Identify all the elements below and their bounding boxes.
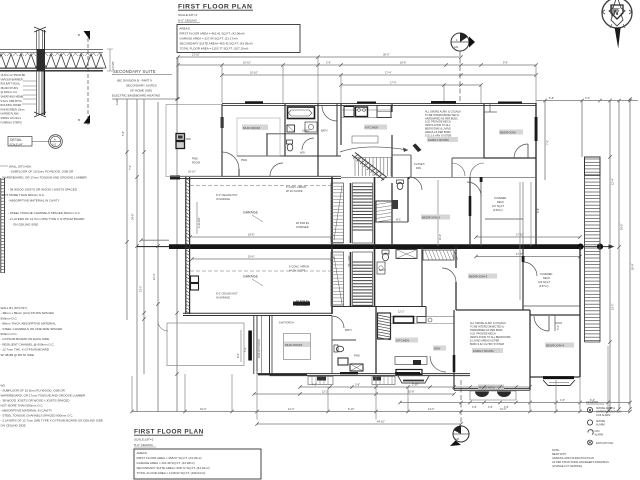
svg-text:- RESILIENT CHANNEL @ 600mm O.: - RESILIENT CHANNEL @ 600mm O.C. [1, 342, 55, 346]
porch steps W/D blocks [176, 134, 191, 149]
svg-text:13'-2": 13'-2" [612, 304, 615, 310]
detail section: floor truss band [0, 50, 106, 71]
svg-text:12'-0": 12'-0" [288, 408, 294, 411]
deck dim 17-8 lower [474, 253, 581, 258]
porch steps below pwd [372, 377, 395, 385]
detail section: dashed section cut line [87, 32, 89, 125]
right vertical dimension lines [545, 97, 635, 410]
detail section: right rotated dimension [107, 49, 119, 105]
svg-text:READ WITH: READ WITH [552, 453, 566, 456]
svg-text:- 2 LAYERS OF 12.7mm (5/8) TYP: - 2 LAYERS OF 12.7mm (5/8) TYPE X GYPSUM… [8, 217, 85, 221]
svg-text:SECONDARY SUITES: SECONDARY SUITES [126, 84, 157, 88]
closet label upper stair [392, 155, 425, 177]
svg-text:11'-2": 11'-2" [439, 234, 442, 240]
svg-text:- 89mm THICK ABSORPTIVE MATERI: - 89mm THICK ABSORPTIVE MATERIAL [1, 322, 57, 326]
svg-text:ALARM: ALARM [596, 424, 605, 427]
svg-text:13'-0": 13'-0" [428, 408, 434, 411]
bath west wall x285 [285, 104, 337, 176]
svg-text:SCALE:1/8"=1': SCALE:1/8"=1' [134, 438, 154, 442]
svg-text:6'-8": 6'-8" [549, 97, 554, 100]
section bubble B top [451, 33, 475, 103]
svg-text:21'-10": 21'-10" [192, 54, 200, 57]
svg-text:WALL B1 (STC=57): WALL B1 (STC=57) [1, 306, 27, 310]
svg-text:9.32.3 & HRV SYSTEM: 9.32.3 & HRV SYSTEM [425, 134, 451, 137]
svg-text:SCALE:1/8"=1': SCALE:1/8"=1' [178, 13, 198, 17]
svg-text:GRADING AND FOUNDATION PLAN: GRADING AND FOUNDATION PLAN [552, 457, 594, 460]
svg-text:4'-10 3/4": 4'-10 3/4" [198, 217, 201, 228]
svg-text:TOTAL FLOOR AREA = 1148.02 SQ: TOTAL FLOOR AREA = 1148.02 SQ.FT. (106.6… [137, 471, 206, 475]
svg-text:W/ 38x89 @ BOTH SIDE: W/ 38x89 @ BOTH SIDE [1, 353, 35, 357]
stair diagonal run upper [352, 153, 387, 181]
svg-text:HARDIE PLANK: HARDIE PLANK [1, 113, 20, 116]
detail label box [8, 137, 32, 147]
svg-text:COVERED: COVERED [494, 197, 507, 200]
kitchen bay window pop-out [398, 376, 429, 383]
room label KITCHEN lower [395, 338, 418, 343]
svg-text:5'-0": 5'-0" [557, 325, 560, 330]
stairs lower: two vertical runs [331, 252, 373, 306]
svg-text:LEGEND: LEGEND [586, 400, 599, 404]
svg-text:12'-2": 12'-2" [322, 390, 328, 393]
svg-text:GARAGE AREA = 261.38: GARAGE AREA = 261.38 SQ.FT. (24.28m²) [137, 461, 195, 465]
svg-text:FURRING STRIPS: FURRING STRIPS [1, 121, 22, 124]
room label FAMILY ROOM upper [427, 137, 458, 142]
room label MUD ROOM lower [284, 334, 311, 360]
svg-text:8'-0" CEILING: 8'-0" CEILING [178, 18, 197, 22]
vanity upper bath [300, 122, 317, 155]
closet hatch right of bath [423, 250, 458, 260]
room label FAMILY ROOM lower [472, 348, 503, 353]
svg-text:600mm O.C.: 600mm O.C. [1, 316, 18, 320]
deck dim 17-10 upper [474, 234, 581, 239]
stairs upper: two vertical runs with treads [331, 183, 373, 243]
pwd room label + door [192, 152, 248, 176]
svg-text:5'-6": 5'-6" [122, 131, 125, 136]
stair east wall upper [374, 177, 376, 246]
covered deck upper label [492, 197, 507, 212]
svg-text:- 38 WOOD JOISTS OR WOOD I-JOI: - 38 WOOD JOISTS OR WOOD I-JOISTS SPACED [8, 188, 78, 192]
svg-text:8'-0" CEILING HGT: 8'-0" CEILING HGT [216, 194, 238, 197]
driveway slab [158, 321, 244, 366]
detail section: wall above floor [34, 27, 46, 49]
garage east wall lower [331, 247, 333, 314]
bath east wall x422 [421, 247, 423, 306]
upper entry porch outline [166, 105, 222, 177]
lower bath label + fixtures [332, 316, 363, 371]
deck lower door arc [522, 256, 537, 276]
room label KITCHEN upper [364, 125, 387, 130]
wood patio label + steps [470, 385, 516, 401]
garage front wall y314 [183, 302, 332, 316]
svg-text:101: 101 [52, 144, 57, 147]
svg-text:SHEATHING MEMB.: SHEATHING MEMB. [1, 96, 25, 99]
wall: east exterior x536 [535, 103, 538, 246]
svg-text:- ABSORPTIVE MATERIAL IN CAVIT: - ABSORPTIVE MATERIAL IN CAVITY [1, 409, 53, 413]
svg-text:10'-10": 10'-10" [243, 62, 251, 65]
svg-text:107 SQ.FT: 107 SQ.FT [492, 205, 505, 208]
svg-text:44'-10": 44'-10" [377, 420, 385, 423]
svg-text:- 12.7mm THK. X GYPSUM BOARD: - 12.7mm THK. X GYPSUM BOARD [1, 348, 50, 352]
svg-text:PWD.: PWD. [241, 159, 248, 162]
svg-text:(9.94m²): (9.94m²) [493, 209, 503, 212]
wall: upper unit west exterior [221, 104, 224, 177]
hall door arcs upper y160-177 [452, 163, 484, 177]
wall: upper unit north exterior [222, 103, 536, 105]
bedroom3 west wall x456 [442, 247, 456, 310]
svg-text:WAFERBOARD, OR 17mm TONGUE AND: WAFERBOARD, OR 17mm TONGUE AND GROOVE LU… [1, 394, 86, 398]
svg-text:600mm O.C.: 600mm O.C. [1, 332, 18, 336]
ev charger note lower [296, 300, 310, 307]
party wall (thick) [137, 244, 615, 250]
svg-text:5'x8' PORCH: 5'x8' PORCH [279, 322, 294, 325]
closet upper bedroom [484, 104, 497, 112]
top dimension line tier 2 [176, 62, 537, 67]
svg-text:IN GARAGE: IN GARAGE [216, 198, 230, 201]
svg-text:10'-2": 10'-2" [500, 408, 506, 411]
svg-text:36'-0": 36'-0" [383, 54, 389, 57]
closet upper bedroom2 [376, 201, 392, 222]
garage east wall / stair west wall upper [331, 177, 333, 246]
svg-text:COVERED: COVERED [540, 273, 553, 276]
svg-text:W.C.: W.C. [396, 219, 402, 222]
svg-text:16x8 O/H DOOR: 16x8 O/H DOOR [258, 339, 261, 358]
family room note text lower [470, 322, 511, 346]
bottom dim tier D (y411) long [130, 408, 631, 413]
svg-text:9'-8": 9'-8" [537, 208, 540, 213]
svg-text:10'-10": 10'-10" [250, 72, 258, 75]
svg-text:3'-6": 3'-6" [355, 383, 360, 386]
svg-text:NOTE:: NOTE: [552, 449, 560, 452]
svg-text:8'-10": 8'-10" [348, 408, 354, 411]
legend item co2 [588, 430, 603, 437]
svg-text:AREAS:: AREAS: [137, 451, 148, 455]
svg-text:- GYPSUM BOARD ON EACH SIDE: - GYPSUM BOARD ON EACH SIDE [1, 337, 50, 341]
bedroom2 window on party side [469, 196, 472, 216]
family room walls lower [454, 310, 530, 390]
window sills on north wall [245, 101, 522, 104]
legend item exhaust fan [588, 440, 614, 445]
svg-text:- SUBFLOOR OF 15.5mm PLYWOOD,: - SUBFLOOR OF 15.5mm PLYWOOD, OSB OR [9, 170, 74, 174]
svg-text:15.9mm GYPSUM BD: 15.9mm GYPSUM BD [1, 74, 26, 77]
room label BEDROOM upper [499, 130, 523, 135]
svg-text:BCBC 9.32.3 & HRV SYSTEM: BCBC 9.32.3 & HRV SYSTEM [470, 343, 504, 346]
svg-text:MUD ROOM: MUD ROOM [243, 126, 260, 130]
note paragraph: party wall assembly [1, 306, 64, 357]
svg-text:8'-0" CEILING HGT: 8'-0" CEILING HGT [216, 293, 238, 296]
bottom dim droppers [132, 346, 608, 420]
bottom dim tier C (y402) [398, 399, 631, 409]
svg-text:5' CONC. APRON: 5' CONC. APRON [289, 266, 309, 269]
mud room walls [237, 118, 341, 156]
svg-text:FIRST FLOOR AREA = 258.67 SQ: FIRST FLOOR AREA = 258.67 SQ.FT. (24.03m… [137, 456, 202, 460]
north compass rose [602, 0, 632, 49]
hallway wall y158-176 upper [452, 158, 484, 177]
room label MUD ROOM upper [242, 125, 268, 131]
legend item smoke/co alarm [587, 407, 621, 417]
top dimension line tier 1 [176, 54, 462, 59]
den door arc [430, 356, 446, 372]
svg-text:CHARGER: CHARGER [296, 226, 309, 229]
svg-text:9'-0": 9'-0" [503, 62, 508, 65]
svg-text:SECONDARY SUITE AREA= 463.42: SECONDARY SUITE AREA= 463.42 SQ.FT. (43.… [180, 42, 253, 46]
svg-text:GARAGE AREA = 227.94: GARAGE AREA = 227.94 SQ.FT. (21.17m²) [180, 37, 238, 41]
bedroom2 interior dim line [438, 180, 442, 246]
svg-text:BEDROOM: BEDROOM [500, 131, 516, 135]
left legend ladder bar [1, 178, 5, 273]
apron note lower [289, 266, 309, 273]
covered deck lower label [538, 273, 553, 288]
svg-text:24'-8": 24'-8" [621, 224, 624, 230]
svg-text:PAN.: PAN. [416, 167, 422, 170]
note: wall STC label [0, 165, 31, 169]
note paragraph: resilient channels [8, 211, 85, 227]
svg-text:KITCHEN: KITCHEN [396, 339, 409, 343]
mud room lower walls [270, 316, 333, 374]
left vertical dimension lines [122, 57, 179, 412]
right top dim line [536, 97, 638, 102]
wc room upper [392, 177, 408, 246]
kitchen west wall x341 upper [340, 104, 342, 145]
svg-text:BEDROOM-3: BEDROOM-3 [469, 275, 488, 279]
detail section: section marker triangle top [78, 31, 90, 40]
svg-text:AREAS:: AREAS: [180, 27, 191, 31]
svg-text:- 2 LAYERS OF 12.7mm (5/8) TYP: - 2 LAYERS OF 12.7mm (5/8) TYPE X GYPSUM… [1, 419, 103, 423]
svg-text:W/ 2% SLOPE: W/ 2% SLOPE [289, 269, 306, 272]
left dim line under suite note [112, 97, 180, 100]
exterior stair east [585, 157, 601, 342]
svg-text:7'-2": 7'-2" [129, 165, 132, 170]
svg-text:LINEN: LINEN [302, 130, 310, 133]
legend bottom right [586, 400, 604, 404]
svg-text:BEDROOM-4: BEDROOM-4 [546, 344, 565, 348]
svg-text:8'-0" CEILING: 8'-0" CEILING [134, 443, 153, 447]
svg-text:SCALE:3/4": SCALE:3/4" [10, 143, 23, 146]
bedroom3 east wall x523 [522, 247, 524, 310]
top title: FIRST FLOOR PLAN [178, 4, 253, 23]
svg-text:A31: A31 [455, 438, 460, 441]
svg-text:55'-4": 55'-4" [632, 264, 635, 270]
ev charger note upper [296, 222, 310, 229]
mud room rotated dims [237, 330, 247, 362]
svg-text:103 SQ.FT: 103 SQ.FT [538, 281, 551, 284]
apron note upper [286, 186, 306, 193]
garage upper rotated dim [197, 202, 201, 234]
svg-text:SIDING ON 19mm: SIDING ON 19mm [1, 117, 22, 120]
detail section: left annotation text column [1, 74, 26, 124]
svg-text:2'-10": 2'-10" [412, 383, 418, 386]
lower pwd walls [332, 306, 376, 374]
toilet upper bath [287, 125, 295, 151]
svg-text:12'-2": 12'-2" [398, 311, 404, 314]
room label BEDROOM-4 [545, 343, 574, 348]
bedroom upper-right walls [484, 104, 536, 158]
covered deck upper walls [481, 182, 523, 246]
svg-text:ALARM: ALARM [595, 434, 604, 437]
svg-text:19'-6": 19'-6" [248, 234, 254, 237]
bedroom door arc upper [514, 144, 528, 158]
svg-text:FIRST FLOOR AREA = 462.41 SQ: FIRST FLOOR AREA = 462.41 SQ.FT. (42.96m… [180, 32, 245, 36]
garage apron dashed line lower [190, 270, 332, 272]
kitchen lower island/counter bottom [395, 357, 427, 375]
top areas table box [177, 25, 300, 53]
svg-text:PWD.: PWD. [192, 158, 199, 161]
svg-text:VAPOUR BARRIER: VAPOUR BARRIER [1, 78, 23, 81]
top dimension droppers [178, 57, 536, 103]
bottom areas table box [134, 449, 261, 479]
svg-text:12'-4": 12'-4" [153, 274, 156, 280]
garage lower labels [216, 275, 263, 300]
svg-text:BEDROOM-2: BEDROOM-2 [422, 216, 441, 220]
svg-text:SECONDARY SUITE: SECONDARY SUITE [113, 69, 156, 74]
svg-text:@ 400mm O.C.: @ 400mm O.C. [1, 91, 19, 94]
svg-text:- 38 WOOD JOISTS OR WOOD I-JOI: - 38 WOOD JOISTS OR WOOD I-JOISTS SPACED [1, 399, 71, 403]
svg-text:8'-0": 8'-0" [237, 353, 240, 358]
svg-text:5' CONC. APRON: 5' CONC. APRON [286, 186, 306, 189]
svg-text:CLOSET/: CLOSET/ [414, 163, 425, 166]
deck lower east lines [523, 247, 580, 377]
svg-text:FAMILY ROOM: FAMILY ROOM [428, 138, 449, 142]
svg-text:PWD: PWD [354, 355, 360, 358]
svg-text:NOT MORE THAN 600mm O.C.: NOT MORE THAN 600mm O.C. [2, 193, 45, 197]
room label BEDROOM-2 [421, 215, 450, 220]
bedroom2 door arc [409, 177, 422, 190]
family room note text upper [425, 111, 461, 138]
svg-text:R20 BATT INSUL: R20 BATT INSUL [1, 83, 21, 86]
svg-text:12'-4": 12'-4" [612, 179, 615, 185]
svg-text:ON CEILING SIDE: ON CEILING SIDE [13, 223, 38, 227]
svg-text:17'-4": 17'-4" [385, 72, 391, 75]
svg-text:38x140 STUDS: 38x140 STUDS [1, 87, 19, 90]
svg-text:FIRST FLOOR PLAN: FIRST FLOOR PLAN [178, 4, 253, 11]
detail section: wall joint dark fill [37, 49, 46, 71]
bedroom3 south wall y310 [456, 309, 530, 311]
bedroom4 walls [530, 315, 580, 377]
svg-text:R/I FOR EV: R/I FOR EV [296, 222, 310, 225]
detail section: section marker triangle bottom [78, 115, 90, 124]
svg-text:BATH: BATH [321, 130, 328, 133]
svg-text:16'-6": 16'-6" [400, 62, 406, 65]
svg-text:ELECTRIC BASEBOARD HEATING: ELECTRIC BASEBOARD HEATING [112, 94, 161, 98]
room label DEN lower [433, 346, 446, 351]
bedroom4 bay window [543, 378, 575, 386]
section bubble B bottom [450, 380, 469, 446]
svg-text:B: B [78, 33, 80, 37]
bottom dim tier B (y394) [252, 390, 455, 395]
bottom title: FIRST FLOOR PLAN [134, 429, 204, 448]
svg-text:3'-0": 3'-0" [585, 97, 590, 100]
svg-text:KITCHEN: KITCHEN [365, 126, 378, 130]
svg-text:3'-0": 3'-0" [472, 406, 477, 409]
top dimension line tier 4 [339, 82, 482, 87]
svg-text:24'-8": 24'-8" [132, 214, 135, 220]
note paragraph: floor assembly W2 [1, 384, 103, 428]
svg-text:MUD ROOM: MUD ROOM [285, 343, 302, 347]
svg-text:10'-8": 10'-8" [408, 390, 414, 393]
bottom dim tier E (y424) [255, 420, 462, 425]
svg-text:DEN: DEN [434, 347, 440, 351]
legend item smoke alarm [587, 420, 605, 427]
svg-text:- STEEL TONGUE CHANNELS SPACED: - STEEL TONGUE CHANNELS SPACED 600mm O.C… [1, 414, 74, 418]
svg-text:TOTAL FLOOR AREA = 1153.77 SQ: TOTAL FLOOR AREA = 1153.77 SQ.FT. (107.1… [180, 47, 249, 51]
garage overhead door lower [248, 316, 261, 374]
svg-text:SECONDARY SUITE AREA= 698.72: SECONDARY SUITE AREA= 698.72 SQ.FT. (64.… [137, 466, 210, 470]
svg-text:GARAGE: GARAGE [243, 211, 259, 215]
svg-text:A31: A31 [454, 46, 459, 49]
svg-text:FIRST FLOOR PLAN: FIRST FLOOR PLAN [134, 429, 204, 436]
south wall lower unit [257, 373, 470, 375]
bedroom2 east wall x470 [469, 177, 471, 246]
svg-text:FAMILY ROOM: FAMILY ROOM [473, 349, 494, 353]
svg-text:ROOM: ROOM [192, 162, 200, 165]
svg-text:- STEEL CHANNELS ON ONE SIDE S: - STEEL CHANNELS ON ONE SIDE SPACED [1, 327, 64, 331]
svg-text:NOT MORE THAN 600mm O.C.: NOT MORE THAN 600mm O.C. [1, 404, 44, 408]
svg-text:A: A [54, 138, 56, 142]
svg-text:BUILDING PAPER: BUILDING PAPER [1, 104, 22, 107]
svg-text:- STEEL TONGUE CHANNELS SPACED: - STEEL TONGUE CHANNELS SPACED 600mm O.C… [8, 211, 81, 215]
wall: kitchen/family separation x392 [391, 104, 393, 177]
svg-text:4'-0": 4'-0" [560, 399, 565, 402]
svg-text:7'-0": 7'-0" [547, 140, 550, 145]
stairs upper: landing run horizontal treads [355, 158, 392, 177]
svg-text:- 38mm x 89mm (2x4) STUDS SPAC: - 38mm x 89mm (2x4) STUDS SPACED [1, 311, 55, 315]
svg-text:(9.57m²): (9.57m²) [539, 285, 549, 288]
svg-text:- ABSORPTIVE MATERIAL IN CAVIT: - ABSORPTIVE MATERIAL IN CAVITY [8, 199, 60, 203]
svg-text:(CHANGE LOT GRADING): (CHANGE LOT GRADING) [552, 465, 582, 468]
svg-text:W/D: W/D [186, 138, 191, 141]
pantry hatched lower [378, 313, 391, 340]
note paragraph: wood joists [2, 188, 78, 203]
svg-text:19'-6": 19'-6" [248, 256, 254, 259]
svg-text:W/D: W/D [300, 152, 305, 155]
svg-text:BATH: BATH [345, 329, 352, 332]
wall: upper unit / garage separation y177 [170, 176, 536, 180]
svg-text:HALLWAY: HALLWAY [348, 255, 351, 267]
stair top landing box [585, 157, 601, 175]
svg-text:W2: W2 [1, 384, 6, 388]
rotated dim deck upper [520, 182, 540, 300]
detail section: wall below floor [34, 71, 46, 117]
svg-text:CO2 ALARM: CO2 ALARM [596, 414, 610, 417]
garage upper dim 19-6 [188, 234, 333, 239]
room label BEDROOM-3 [468, 274, 497, 279]
svg-text:IN GARAGE: IN GARAGE [216, 296, 230, 299]
svg-text:16'-0": 16'-0" [200, 408, 206, 411]
bedroom4 door arc [534, 316, 549, 331]
svg-text:DECK: DECK [497, 201, 504, 204]
kitchen lower counters [391, 317, 454, 324]
svg-text:B: B [78, 118, 80, 122]
svg-text:17'-4": 17'-4" [390, 82, 396, 85]
svg-text:9.5mm OSB SHTG: 9.5mm OSB SHTG [1, 100, 22, 103]
svg-text:17'-8": 17'-8" [516, 253, 522, 256]
lower hall bath fixtures [377, 250, 417, 275]
svg-text:- SUBFLOOR OF 15.5mm PLYWOOD,: - SUBFLOOR OF 15.5mm PLYWOOD, OSB OR [1, 389, 66, 393]
bottom dim tier A (y387) [298, 383, 531, 388]
svg-text:DETAIL: DETAIL [10, 138, 22, 142]
kitchen counter upper [341, 106, 392, 118]
kitchen east wall x454 [453, 310, 455, 374]
garage west wall hatched (both units) [186, 177, 190, 314]
island upper kitchen [352, 136, 378, 143]
svg-text:16'-10": 16'-10" [188, 171, 196, 174]
svg-text:OF HOME USE): OF HOME USE) [130, 89, 152, 93]
svg-text:WAFERBOARD, OR 17mm TONGUE AND: WAFERBOARD, OR 17mm TONGUE AND GROOVE LU… [2, 175, 87, 179]
secondary suite note block [112, 69, 172, 98]
garage lower W/D blocks [191, 276, 199, 290]
svg-text:3'-0": 3'-0" [488, 406, 493, 409]
note block bottom right [552, 449, 609, 468]
svg-text:AS PER STRUCTURAL ENGINEER'S D: AS PER STRUCTURAL ENGINEER'S DRAWINGS [552, 461, 609, 464]
